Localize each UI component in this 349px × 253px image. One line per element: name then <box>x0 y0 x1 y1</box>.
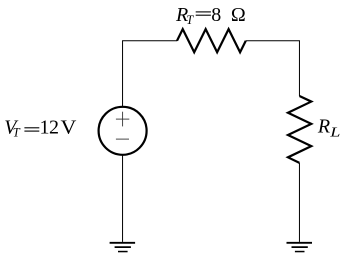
svg-text:V: V <box>61 116 77 139</box>
svg-text:8: 8 <box>211 4 221 26</box>
svg-text:12: 12 <box>40 117 59 139</box>
svg-text:Ω: Ω <box>231 4 246 26</box>
svg-text:T: T <box>186 13 194 27</box>
svg-text:T: T <box>13 126 21 140</box>
svg-text:L: L <box>329 125 340 139</box>
svg-text:R: R <box>317 116 330 138</box>
